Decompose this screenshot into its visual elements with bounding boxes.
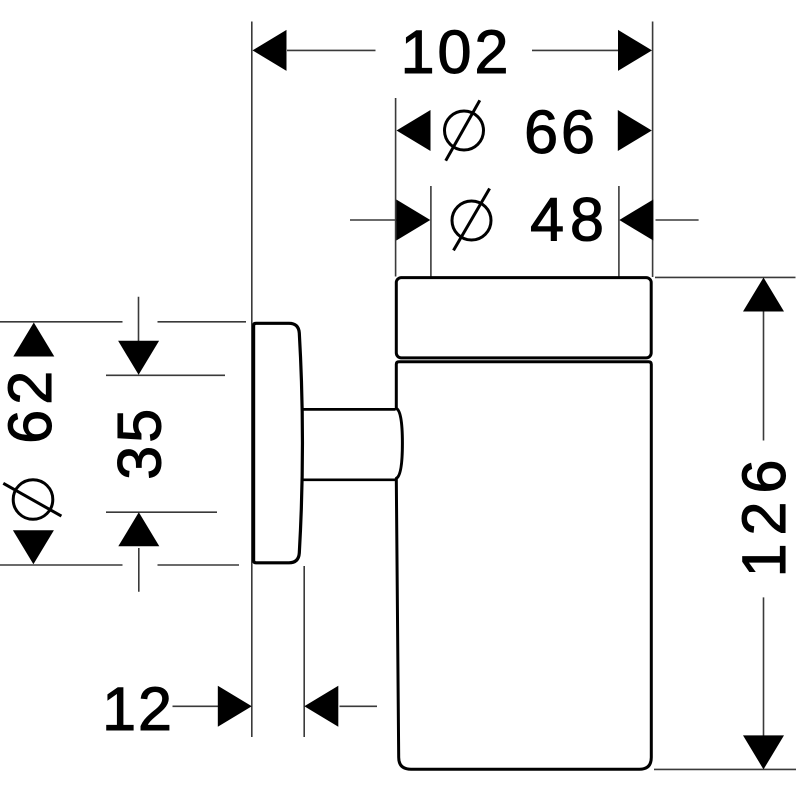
phi of 62 (rotated)	[13, 480, 53, 520]
arm bottom line	[301, 478, 396, 481]
svg-text:62: 62	[0, 366, 64, 444]
12 left	[218, 686, 252, 727]
ext line bottom of 126	[654, 768, 796, 770]
102 right	[618, 30, 652, 71]
35 top	[118, 341, 159, 375]
arm top line	[301, 408, 396, 411]
wall plate	[254, 323, 303, 563]
svg-text:12: 12	[102, 675, 174, 743]
ext line right of 12	[303, 566, 305, 737]
dim line 12	[173, 705, 378, 707]
ext line left of 66	[395, 98, 397, 277]
dim tails 48	[350, 219, 699, 221]
cup body with collar bulge	[396, 362, 651, 770]
ext line left of 48	[430, 186, 432, 277]
svg-text:66: 66	[524, 98, 598, 166]
ext line bottom of 62	[0, 564, 239, 566]
126 bottom	[743, 735, 784, 769]
phi of 66	[445, 111, 484, 150]
ext line left of 102 (x=251.8)	[251, 22, 253, 738]
cup rim	[396, 278, 651, 358]
line top of 35	[106, 374, 225, 376]
48 right	[619, 200, 653, 241]
62 bottom	[13, 530, 54, 564]
svg-text:126: 126	[730, 452, 798, 578]
48 left	[396, 200, 430, 241]
ext line right of 48	[618, 186, 620, 277]
35 bottom	[118, 512, 159, 546]
dim tails 35	[138, 297, 140, 592]
object outline	[254, 278, 652, 770]
dim line 102	[287, 49, 619, 51]
diameter symbols	[3, 100, 491, 519]
line bottom of 35	[106, 511, 217, 513]
ext line top of 62	[0, 321, 246, 323]
66 right	[618, 110, 652, 151]
phi of 48	[452, 201, 491, 240]
126 top	[743, 278, 784, 312]
ext line top of 126	[655, 276, 796, 278]
66 left	[397, 110, 431, 151]
svg-text:35: 35	[105, 406, 173, 480]
dim line 126	[763, 308, 765, 736]
ext line right of 102/66 (x=652.6)	[652, 22, 654, 278]
62 top	[13, 323, 54, 357]
12 right	[304, 686, 338, 727]
svg-text:102: 102	[401, 18, 512, 86]
102 left	[253, 30, 287, 71]
svg-text:48: 48	[530, 185, 610, 253]
